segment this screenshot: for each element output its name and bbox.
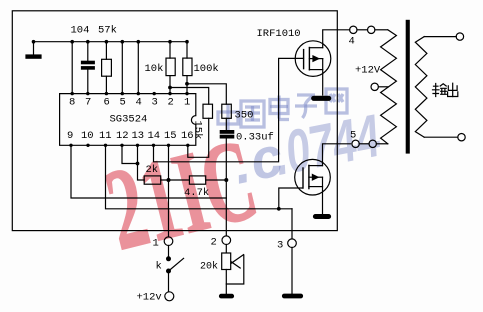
junction: rail pin4 [137,40,141,44]
pin 9 [69,144,72,147]
pin 11 [104,144,107,147]
transformer core [406,20,409,153]
transformer secondary winding [415,37,427,138]
wire secondary bottom to output [424,134,465,141]
junction: gate2 tee [277,207,281,211]
wire pin12 down [122,145,138,163]
resistor 10k [166,58,175,76]
svg-text:4.7k: 4.7k [184,187,209,199]
wire pin11 down to gate line [106,145,293,209]
svg-text:5: 5 [350,130,356,142]
wire pin13 down to 2k [138,145,145,180]
svg-text:20k: 20k [200,260,218,272]
svg-text:SG3524: SG3524 [110,114,148,126]
svg-text:16: 16 [181,130,194,142]
wire terminal3 to ground [291,248,293,295]
pin 4 [137,92,140,95]
resistor 2k [144,176,161,184]
svg-text:11: 11 [99,130,112,142]
resistor 4.7k [189,176,205,184]
svg-text:10: 10 [81,130,94,142]
svg-text:4: 4 [349,36,355,48]
watermark red 21IC [98,131,259,260]
wire pin1 up [186,42,188,94]
+12v terminal circle [165,292,174,301]
transformer primary winding [381,30,397,144]
pin 8 [71,92,74,95]
svg-text:57k: 57k [98,25,117,37]
pin 3 [153,92,156,95]
wire pin5 up [121,42,123,94]
resistor 57k [102,59,112,76]
svg-text:+12V: +12V [355,65,381,77]
svg-text:12: 12 [116,130,129,142]
svg-text:IRF1010: IRF1010 [257,28,301,40]
capacitor 104 [82,61,95,69]
svg-text:k: k [156,261,162,273]
svg-text:3: 3 [277,240,283,252]
junction: rail 10k [168,40,172,44]
terminal 3 circle [288,239,297,248]
svg-text:350: 350 [235,110,254,122]
svg-text:7: 7 [85,96,91,108]
svg-text:2k: 2k [146,164,159,176]
pin 12 [120,144,123,147]
wire 350 bottom to cap [225,118,227,130]
outer border box [12,11,337,231]
wire pin14 to gate1 [154,58,304,161]
svg-text:2: 2 [168,96,174,108]
IC U1 SG3524 body [60,94,196,146]
svg-text:1: 1 [184,96,190,108]
wire pin7 up [87,42,89,94]
svg-text:3: 3 [152,96,158,108]
terminal 1 circle [164,237,173,246]
transistor Q1 IRF1010 upper [295,41,331,77]
pin 2 [168,92,171,95]
pin 13 [136,144,139,147]
ground bar under Q1 [312,96,331,100]
wire source2 to ground [322,177,324,214]
wire cap down to terminal 2 [225,138,227,236]
transistor Q2 IRF1010 lower [295,159,331,195]
svg-text:4: 4 [136,96,142,108]
wire pin8 up [71,42,73,94]
junction: 2k-4.7k node [167,178,171,182]
capacitor 0.33uf [220,131,233,138]
wire drain2 up to terminal 5 [323,144,351,166]
pin 7 [86,92,89,95]
junction: rail pin8 [70,40,74,44]
pin 1 [185,92,188,95]
svg-text:0.33uf: 0.33uf [236,132,274,144]
pin 15 [167,144,170,147]
ground bar under terminal 3 [283,294,303,298]
junction: rail 100k [185,40,189,44]
wire pin4 up [137,42,139,94]
junction: pin12-pin13 [136,162,140,166]
wire pin9 down-right [71,145,226,198]
svg-text:+12v: +12v [137,292,162,304]
wire terminal2 to pot [225,245,227,253]
wire 4.7k right [206,179,227,181]
junction: rail pin6 [105,40,109,44]
pin 6 [105,92,108,95]
wire pin2 up [169,42,171,94]
terminal 2 circle [222,236,231,245]
junction: rail pin7 [86,40,90,44]
pin 16 [186,144,189,147]
terminal 5 circles [352,140,388,147]
svg-text:6: 6 [104,96,110,108]
ground bar under pot [220,294,234,297]
+12V center tap [371,83,388,90]
label output CJK [433,83,458,97]
pin 14 [152,144,155,147]
wire pin2 to 15k top [170,88,209,105]
pin 10 [86,144,89,147]
junction: rail pin5 [121,40,125,44]
resistor 100k [183,58,192,76]
potentiometer 20k [222,253,244,294]
svg-text:15: 15 [164,130,177,142]
wire pin1 to 350 top [187,84,226,104]
wire source1 to ground [322,59,324,95]
switch k [167,246,184,292]
resistor 15k [203,104,213,118]
ground rail top [34,41,188,43]
wire drain1 up to terminal 4 [323,30,350,48]
ground bar under Q2 [314,215,331,219]
wire 15k bottom to pin16 [188,118,209,157]
wire pin6 up [105,42,107,94]
junction: pin1 branch [185,82,189,86]
svg-text:104: 104 [71,25,90,37]
svg-text:100k: 100k [194,63,219,75]
svg-text:2: 2 [211,237,217,249]
resistor 350 [222,104,232,118]
watermark blue .c [228,127,289,192]
pin 5 [121,92,124,95]
wire gate2 vertical [279,188,303,209]
wire secondary top to output [424,33,463,40]
svg-text:10k: 10k [145,63,164,75]
wire pin15 down to terminal 1 [168,145,170,237]
svg-text:9: 9 [67,130,73,142]
ground symbol top-left [26,42,41,59]
svg-text:1: 1 [153,238,159,250]
junction: pin2 branch [168,86,172,90]
terminal 4 circles [350,26,388,33]
wire terminal3 up [291,209,293,239]
junction: 4.7k right node [224,178,228,182]
svg-text:13: 13 [132,130,145,142]
wire 2k right to 4.7k left [161,179,190,181]
watermark blue .0744 [269,106,385,185]
junction: rail at ground stem [32,40,36,44]
svg-text:8: 8 [69,96,75,108]
svg-text:14: 14 [148,130,161,142]
svg-text:5: 5 [120,96,126,108]
